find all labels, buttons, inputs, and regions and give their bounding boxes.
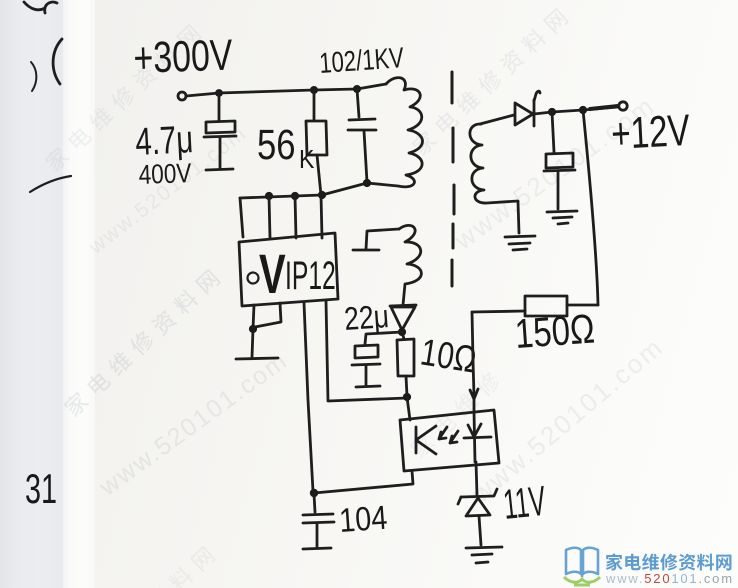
svg-text:56: 56 <box>257 122 296 169</box>
svg-text:102/1KV: 102/1KV <box>318 42 405 79</box>
wire IC bottom pin 2 <box>255 303 281 327</box>
resistor R1 56K <box>306 90 327 195</box>
capacitor C3 22u <box>352 345 380 387</box>
node dot D2 cathode <box>398 328 406 336</box>
capacitor C2 102/1KV <box>348 89 376 182</box>
svg-text:V: V <box>259 244 286 306</box>
svg-text:10Ω: 10Ω <box>418 331 480 381</box>
optocoupler U2 <box>400 410 499 471</box>
wire IC top pin 4 <box>321 195 322 238</box>
node dot bus-2 <box>291 192 299 200</box>
wire IC bottom pin 4 to feedback node <box>326 301 407 401</box>
node dot pin12 <box>249 325 257 333</box>
node dot bus-1 <box>265 192 273 200</box>
stray mark top-left corner <box>24 2 57 13</box>
stray diagonal stroke left <box>30 176 71 192</box>
capacitor C5 104 <box>303 494 334 549</box>
svg-text:31: 31 <box>25 466 57 512</box>
stray curve left "(" <box>53 39 62 84</box>
wire main top rail <box>186 84 386 96</box>
wire +12V rail <box>534 106 618 114</box>
wire IC bottom pin 3 long <box>304 303 313 491</box>
diode D2 <box>390 305 416 330</box>
node dot bus-3 <box>318 191 326 199</box>
node dot rail-2 <box>579 106 587 114</box>
zener D3 11V <box>458 489 497 545</box>
terminal +12V output <box>619 102 627 110</box>
svg-text:+12V: +12V <box>610 107 691 160</box>
logo CJK text vector <box>605 544 738 574</box>
resistor R2 10ohm <box>397 332 414 396</box>
logo bottom right <box>550 533 738 588</box>
resistor R3 150ohm <box>472 296 598 316</box>
node junction dot B <box>310 86 318 94</box>
stray curve left ")" <box>31 62 36 91</box>
wire IC top pin 3 <box>295 196 296 238</box>
ground below C4 <box>547 211 577 224</box>
terminal +300V input <box>178 92 186 100</box>
svg-text:+300V: +300V <box>133 32 234 83</box>
capacitor C4 output <box>544 112 575 209</box>
svg-text:IP12: IP12 <box>285 254 336 299</box>
ground below secondary <box>505 236 535 250</box>
svg-text:4.7μ: 4.7μ <box>134 118 194 164</box>
transformer T1 secondary winding <box>470 124 519 233</box>
node dot rail-1 <box>548 108 556 116</box>
svg-text:150Ω: 150Ω <box>513 305 596 357</box>
wire 150ohm to opto LED with arrow <box>470 312 478 412</box>
wire IC top pin 1 <box>240 198 243 237</box>
IC U1 VIP12 regulator <box>239 233 338 306</box>
ground below zener <box>466 547 502 563</box>
svg-text:K: K <box>299 146 315 175</box>
node dot ground bus <box>310 489 318 497</box>
transformer T1 primary winding <box>367 78 422 187</box>
svg-text:22μ: 22μ <box>343 298 390 337</box>
wire secondary top to diode <box>480 115 514 124</box>
wire opto bottom-left to ground bus <box>314 471 413 493</box>
capacitor C1 4.7u/400V <box>204 93 236 170</box>
svg-text:400V: 400V <box>138 158 192 190</box>
diode D1 rectifier <box>515 91 540 126</box>
node junction dot C <box>353 85 361 93</box>
wire IC bottom pin 1 to bar <box>236 305 278 359</box>
wire drain bus <box>240 183 367 198</box>
node junction dot A <box>215 89 223 97</box>
wire opto bottom-right to zener <box>476 462 477 495</box>
wire IC top pin 2 <box>269 196 270 238</box>
node dot bus-4 <box>363 179 371 187</box>
wire to C3 <box>365 332 402 344</box>
wire +12V down to 150ohm <box>583 110 598 305</box>
transformer T1 aux winding <box>353 225 421 305</box>
transformer core dashed <box>452 72 454 286</box>
logo book icon <box>566 548 598 577</box>
svg-text:104: 104 <box>338 499 389 540</box>
node dot feedback <box>403 393 411 401</box>
wire to optocoupler LED <box>407 397 410 420</box>
watermarks <box>85 121 252 259</box>
svg-text:11V: 11V <box>501 478 548 529</box>
